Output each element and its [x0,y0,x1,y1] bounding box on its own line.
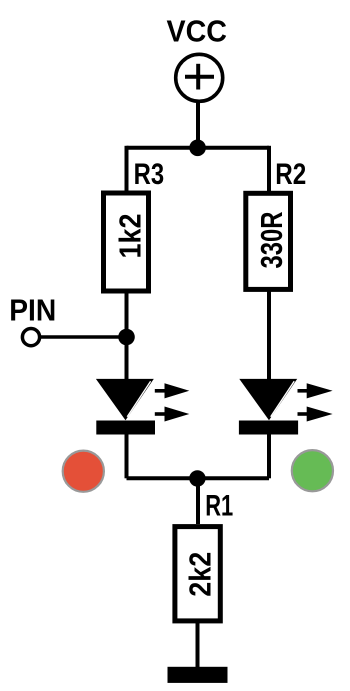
wire rail to R3 [125,146,129,193]
LED D2 cathode bar [239,421,298,435]
wire R1 to ground [196,621,200,668]
node PIN junction [118,329,135,346]
wire rail to R2 [267,146,271,193]
svg-text:330R: 330R [254,212,289,269]
LED D1 cathode bar [96,421,155,435]
LED D1 light arrow 1 [155,383,190,398]
svg-text:2k2: 2k2 [183,552,218,597]
LED D2 light arrow 2 [298,407,333,422]
LED D2 anode triangle [239,379,297,420]
node bottom junction [189,470,205,486]
resistor R3 [104,193,149,291]
LED D1 light arrow 2 [155,407,190,422]
svg-text:R2: R2 [275,158,306,191]
wire top rail [127,146,270,150]
wire VCC to top node [196,101,200,148]
node top junction [189,140,206,157]
PIN terminal [22,329,39,346]
wire LED2 to bottom rail [267,434,271,478]
resistor R2 [246,193,291,289]
red LED indicator [63,451,104,492]
green LED indicator [292,450,333,491]
svg-text:1k2: 1k2 [113,214,148,259]
svg-text:R3: R3 [134,158,165,191]
wire LED1 to bottom rail [125,434,129,478]
resistor R1 [175,527,220,621]
wire R3 to LED1 [125,290,129,381]
wire bottom rail [127,476,270,480]
wire PIN to node [41,335,127,339]
LED D2 light arrow 1 [298,383,333,398]
ground [168,667,228,683]
LED D1 anode triangle [96,379,154,420]
svg-text:R1: R1 [205,490,233,523]
svg-text:PIN: PIN [9,292,56,327]
wire node to R1 [196,478,200,524]
wire R2 to LED2 [267,290,271,381]
VCC supply symbol [176,54,223,101]
svg-text:VCC: VCC [167,14,228,49]
